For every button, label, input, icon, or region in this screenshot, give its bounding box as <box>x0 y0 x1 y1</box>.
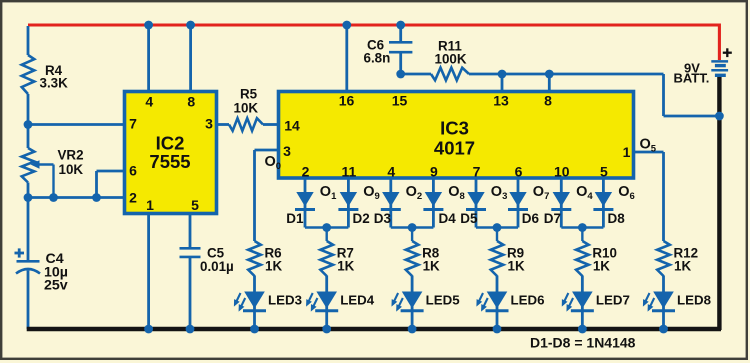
svg-text:8: 8 <box>187 94 195 110</box>
svg-text:15: 15 <box>392 93 408 109</box>
svg-text:7: 7 <box>129 116 137 132</box>
svg-text:LED4: LED4 <box>340 293 375 308</box>
svg-text:13: 13 <box>493 93 509 109</box>
svg-text:LED5: LED5 <box>426 293 461 308</box>
svg-text:D4: D4 <box>439 211 457 226</box>
svg-text:D5: D5 <box>460 211 478 226</box>
svg-text:1: 1 <box>146 197 154 213</box>
svg-text:1K: 1K <box>508 259 525 274</box>
svg-text:LED6: LED6 <box>511 293 545 308</box>
svg-text:LED7: LED7 <box>596 293 630 308</box>
svg-text:7555: 7555 <box>149 151 190 172</box>
svg-text:100K: 100K <box>435 52 467 67</box>
svg-text:10K: 10K <box>59 162 84 177</box>
svg-text:1: 1 <box>623 144 631 160</box>
svg-text:5: 5 <box>600 164 608 180</box>
svg-text:4: 4 <box>387 164 395 180</box>
svg-text:7: 7 <box>473 164 481 180</box>
svg-text:D1-D8 = 1N4148: D1-D8 = 1N4148 <box>530 335 636 351</box>
svg-text:1K: 1K <box>423 259 440 274</box>
svg-text:4017: 4017 <box>434 138 475 159</box>
svg-text:3.3K: 3.3K <box>40 76 69 91</box>
svg-text:10: 10 <box>554 164 570 180</box>
svg-text:D7: D7 <box>544 211 561 226</box>
svg-text:6: 6 <box>515 164 523 180</box>
svg-text:25v: 25v <box>44 278 68 294</box>
svg-text:D1: D1 <box>286 211 304 226</box>
svg-text:11: 11 <box>341 164 356 180</box>
svg-text:1K: 1K <box>265 259 282 274</box>
svg-text:1K: 1K <box>593 259 610 274</box>
svg-text:IC3: IC3 <box>440 118 469 139</box>
svg-text:LED8: LED8 <box>677 293 711 308</box>
svg-text:6: 6 <box>129 163 137 179</box>
svg-text:0.01µ: 0.01µ <box>200 259 234 274</box>
svg-text:D8: D8 <box>608 211 626 226</box>
svg-text:2: 2 <box>302 164 310 180</box>
svg-text:D2: D2 <box>353 211 370 226</box>
svg-text:3: 3 <box>205 116 213 132</box>
svg-text:4: 4 <box>145 94 153 110</box>
svg-text:14: 14 <box>284 118 300 134</box>
svg-text:D3: D3 <box>374 211 392 226</box>
svg-text:6.8n: 6.8n <box>364 51 391 66</box>
svg-text:8: 8 <box>544 93 552 109</box>
svg-text:D6: D6 <box>522 211 540 226</box>
svg-text:VR2: VR2 <box>58 148 84 163</box>
svg-text:9: 9 <box>430 164 438 180</box>
svg-text:16: 16 <box>339 93 355 109</box>
svg-text:BATT.: BATT. <box>674 71 710 86</box>
svg-text:1K: 1K <box>337 259 354 274</box>
svg-text:1K: 1K <box>674 259 691 274</box>
svg-text:2: 2 <box>129 190 137 206</box>
svg-text:10K: 10K <box>234 101 259 116</box>
svg-text:R5: R5 <box>240 87 258 102</box>
svg-text:5: 5 <box>191 197 199 213</box>
svg-text:LED3: LED3 <box>268 293 302 308</box>
svg-text:3: 3 <box>283 143 291 159</box>
